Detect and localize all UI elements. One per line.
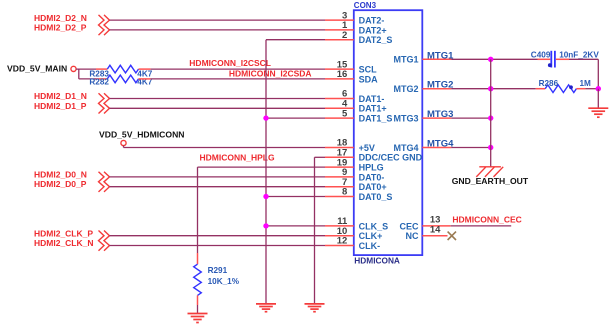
svg-text:1M: 1M bbox=[580, 79, 592, 88]
power port VDD_5V_HDMICONN bbox=[99, 129, 184, 145]
svg-text:5: 5 bbox=[342, 108, 348, 119]
label GND_EARTH_OUT bbox=[452, 176, 529, 186]
wire HDMI2_D1_N bbox=[110, 98, 326, 100]
pin 7 stub bbox=[325, 186, 354, 188]
svg-text:HDMI2_D1_P: HDMI2_D1_P bbox=[34, 101, 87, 111]
junction corner bbox=[596, 86, 601, 91]
pin number 16 bbox=[337, 69, 348, 80]
pin number 6 bbox=[342, 89, 347, 100]
pin name CLK_S bbox=[359, 221, 389, 231]
wire HDMI2_D2_N bbox=[110, 19, 326, 21]
junction DAT1_S bbox=[263, 115, 268, 120]
power port VDD_5V_MAIN bbox=[7, 64, 76, 74]
net label HDMICONN_HPLG bbox=[200, 152, 275, 162]
pin number 13 bbox=[430, 215, 441, 226]
pin 1 stub bbox=[325, 29, 354, 31]
port chevron HDMI2_CLK bbox=[99, 231, 110, 251]
wire shield bus bbox=[266, 40, 325, 304]
svg-text:VDD_5V_MAIN: VDD_5V_MAIN bbox=[7, 64, 67, 74]
resistor R291 value 10K_1% bbox=[208, 277, 240, 286]
pin 4 stub bbox=[325, 107, 354, 109]
port label HDMI2_CLK_P bbox=[34, 228, 93, 238]
pin number 4 bbox=[342, 99, 348, 110]
svg-text:R286: R286 bbox=[539, 79, 559, 88]
pin name DAT0_S bbox=[359, 192, 393, 202]
junction MTG4 bus bbox=[488, 145, 493, 150]
earth ground GND_EARTH_OUT bbox=[476, 167, 503, 177]
pin number 1 bbox=[342, 20, 348, 31]
svg-text:MTG2: MTG2 bbox=[427, 80, 453, 91]
pin name DAT0+ bbox=[359, 182, 387, 192]
port chevron HDMI2_D0 bbox=[99, 172, 110, 192]
pin number 2 bbox=[342, 30, 347, 41]
pin MTG4 stub bbox=[422, 147, 451, 149]
connector CON3 body bbox=[354, 10, 423, 255]
junction DAT0_S bbox=[263, 194, 268, 199]
svg-text:DAT1+: DAT1+ bbox=[359, 104, 387, 114]
no-connect X pin 14 bbox=[448, 232, 456, 240]
wire HDMI2_D0_P bbox=[110, 186, 326, 188]
svg-text:CEC: CEC bbox=[399, 221, 419, 231]
pin 16 stub bbox=[325, 78, 354, 80]
wire CLK_S branch bbox=[266, 225, 325, 227]
resistor R282 bbox=[107, 75, 138, 83]
pin name SDA bbox=[359, 74, 379, 84]
svg-text:HDMICONN_HPLG: HDMICONN_HPLG bbox=[200, 152, 275, 162]
junction CLK_S bbox=[263, 223, 268, 228]
pin number 10 bbox=[337, 226, 348, 237]
port chevron HDMI2_D1 bbox=[99, 93, 110, 113]
resistor R282 left lead bbox=[96, 78, 107, 80]
wire R291 to ground bbox=[197, 305, 199, 314]
port label HDMI2_D1_P bbox=[34, 101, 87, 111]
svg-text:DDC/CEC GND: DDC/CEC GND bbox=[359, 153, 423, 163]
svg-text:MTG3: MTG3 bbox=[427, 109, 453, 120]
wire MTG1 to corner bbox=[569, 59, 598, 88]
svg-text:DAT2-: DAT2- bbox=[359, 16, 385, 26]
port label HDMI2_D0_P bbox=[34, 179, 87, 189]
svg-text:10K_1%: 10K_1% bbox=[208, 277, 240, 286]
svg-text:2: 2 bbox=[342, 30, 347, 41]
net label MTG2 bbox=[427, 80, 453, 91]
pin number 7 bbox=[342, 177, 347, 188]
resistor R282 value 4K7 bbox=[137, 77, 152, 86]
resistor R291 bottom lead bbox=[197, 295, 199, 305]
pin 11 stub bbox=[325, 225, 354, 227]
junction MTG1 bus bbox=[488, 57, 493, 62]
pin name DAT1- bbox=[359, 94, 385, 104]
resistor R286 value 1M bbox=[580, 79, 592, 88]
svg-text:NC: NC bbox=[406, 231, 419, 241]
resistor R282 label bbox=[89, 77, 109, 86]
pin number 9 bbox=[342, 167, 347, 178]
wire HDMI2_D0_N bbox=[110, 176, 326, 178]
pin 9 stub bbox=[325, 176, 354, 178]
wire +5V bbox=[124, 146, 326, 148]
svg-text:HDMI2_D1_N: HDMI2_D1_N bbox=[34, 91, 87, 101]
wire MTG2 bbox=[451, 88, 536, 90]
svg-text:DAT1_S: DAT1_S bbox=[359, 114, 393, 124]
net label MTG3 bbox=[427, 109, 453, 120]
wire MTG4 bbox=[451, 147, 490, 149]
svg-text:MTG3: MTG3 bbox=[393, 114, 418, 124]
capacitor C409 label bbox=[531, 50, 551, 59]
resistor R286 pin dot bbox=[569, 85, 573, 89]
net label MTG1 bbox=[427, 50, 454, 61]
port label HDMI2_D2_P bbox=[34, 23, 87, 33]
resistor R291 top lead bbox=[197, 253, 199, 264]
pin name HPLG bbox=[359, 163, 384, 173]
svg-text:HDMICONN_I2CSDA: HDMICONN_I2CSDA bbox=[229, 68, 312, 78]
wire to ground bbox=[597, 89, 599, 109]
pin name MTG3 bbox=[393, 114, 418, 124]
pin name DAT2_S bbox=[359, 35, 393, 45]
pin 10 stub bbox=[325, 235, 354, 237]
port chevron HDMI2_D2 bbox=[99, 15, 110, 35]
pin 15 stub bbox=[325, 68, 354, 70]
pin MTG1 stub bbox=[422, 58, 451, 60]
pin number 15 bbox=[337, 59, 348, 70]
port label HDMI2_CLK_N bbox=[34, 238, 94, 248]
pin name SCL bbox=[359, 65, 378, 75]
svg-text:DAT0-: DAT0- bbox=[359, 172, 385, 182]
pin 12 stub bbox=[325, 245, 354, 247]
svg-text:C409: C409 bbox=[531, 50, 551, 59]
capacitor C409 right lead bbox=[556, 58, 569, 60]
port label HDMI2_D1_N bbox=[34, 91, 87, 101]
pin 17 stub bbox=[325, 156, 354, 158]
pin number 14 bbox=[430, 224, 441, 235]
capacitor C409 value 10nF_2KV bbox=[559, 50, 599, 59]
svg-text:R291: R291 bbox=[208, 266, 228, 275]
svg-text:DAT1-: DAT1- bbox=[359, 94, 385, 104]
wire HDMI2_D2_P bbox=[110, 29, 326, 31]
wire HDMICONN_I2CSCL bbox=[151, 68, 325, 70]
wire MTG bus bbox=[490, 59, 492, 167]
junction MTG3 bus bbox=[488, 115, 493, 120]
svg-text:+5V: +5V bbox=[359, 143, 375, 153]
resistor R283 label bbox=[89, 69, 109, 78]
pin name DDC/CEC GND bbox=[359, 153, 423, 163]
resistor R286 right lead bbox=[576, 88, 585, 90]
pin name MTG2 bbox=[393, 84, 418, 94]
wire HDMICONN_HPLG bbox=[198, 167, 326, 253]
net label HDMICONN_I2CSDA bbox=[229, 68, 312, 78]
pin 8 stub bbox=[325, 196, 354, 198]
svg-text:8: 8 bbox=[342, 187, 347, 198]
ground R291 bbox=[188, 314, 208, 323]
svg-text:10nF_2KV: 10nF_2KV bbox=[559, 50, 599, 59]
svg-text:DAT2_S: DAT2_S bbox=[359, 35, 393, 45]
pin name DAT1_S bbox=[359, 114, 393, 124]
svg-text:HDMICONN_I2CSCL: HDMICONN_I2CSCL bbox=[189, 58, 271, 68]
pin number 11 bbox=[337, 216, 348, 227]
svg-text:CLK-: CLK- bbox=[359, 241, 381, 251]
resistor R282 right lead bbox=[139, 78, 151, 80]
resistor R283 left lead bbox=[96, 68, 107, 70]
resistor R286 label bbox=[539, 79, 559, 88]
svg-text:HDMI2_CLK_N: HDMI2_CLK_N bbox=[34, 238, 94, 248]
capacitor C409 pin1 dot bbox=[548, 63, 552, 67]
svg-text:MTG2: MTG2 bbox=[393, 84, 418, 94]
pin number 17 bbox=[337, 148, 348, 159]
pin number 3 bbox=[342, 10, 347, 21]
wire HDMI2_CLK_P bbox=[110, 235, 326, 237]
capacitor C409 bbox=[551, 51, 555, 68]
resistor R283 value 4K7 bbox=[137, 69, 152, 78]
svg-text:HDMI2_D0_P: HDMI2_D0_P bbox=[34, 179, 87, 189]
port label HDMI2_D0_N bbox=[34, 169, 87, 179]
wire R286 to corner bbox=[585, 88, 598, 90]
pin name MTG4 bbox=[393, 143, 418, 153]
junction MTG2 bus bbox=[488, 86, 493, 91]
connector value HDMICONA bbox=[354, 255, 400, 265]
pin MTG3 stub bbox=[422, 117, 451, 119]
pin 19 stub bbox=[325, 166, 354, 168]
wire HDMI2_CLK_N bbox=[110, 245, 326, 247]
svg-text:MTG4: MTG4 bbox=[393, 143, 418, 153]
pin 14 stub bbox=[422, 235, 447, 237]
net label HDMICONN_CEC bbox=[452, 215, 521, 225]
pin name +5V bbox=[359, 143, 375, 153]
wire DAT1_S branch bbox=[266, 117, 325, 119]
pin name DAT0- bbox=[359, 172, 385, 182]
wire HDMI2_D1_P bbox=[110, 107, 326, 109]
resistor R286 left lead bbox=[536, 88, 545, 90]
pin 5 stub bbox=[325, 117, 354, 119]
net label HDMICONN_I2CSCL bbox=[189, 58, 271, 68]
svg-text:MTG1: MTG1 bbox=[427, 50, 454, 61]
pin 6 stub bbox=[325, 98, 354, 100]
pin number 18 bbox=[337, 138, 348, 149]
wire DDC/CEC GND bbox=[315, 157, 326, 304]
pin 2 stub bbox=[325, 39, 354, 41]
pin name DAT2+ bbox=[359, 25, 387, 35]
ground MTG bbox=[588, 108, 608, 117]
port label HDMI2_D2_N bbox=[34, 13, 87, 23]
net label MTG4 bbox=[427, 139, 454, 150]
svg-text:HDMICONA: HDMICONA bbox=[354, 255, 400, 265]
pin 13 stub bbox=[422, 225, 450, 227]
svg-text:CLK+: CLK+ bbox=[359, 231, 383, 241]
svg-text:VDD_5V_HDMICONN: VDD_5V_HDMICONN bbox=[99, 129, 184, 139]
resistor R283 right lead bbox=[139, 68, 151, 70]
svg-text:16: 16 bbox=[337, 69, 348, 80]
resistor R291 label bbox=[208, 266, 228, 275]
ground shield bus bbox=[256, 304, 276, 312]
ground DDC/CEC bbox=[305, 304, 325, 312]
svg-text:DAT0_S: DAT0_S bbox=[359, 192, 393, 202]
svg-text:SDA: SDA bbox=[359, 74, 379, 84]
svg-text:DAT2+: DAT2+ bbox=[359, 25, 387, 35]
svg-text:CON3: CON3 bbox=[354, 1, 377, 10]
resistor R291 bbox=[194, 264, 202, 295]
resistor R286 bbox=[545, 85, 576, 93]
svg-text:HDMI2_D2_N: HDMI2_D2_N bbox=[34, 13, 87, 23]
svg-text:MTG1: MTG1 bbox=[393, 55, 418, 65]
pin name CLK+ bbox=[359, 231, 383, 241]
svg-text:HDMI2_CLK_P: HDMI2_CLK_P bbox=[34, 228, 93, 238]
capacitor C409 left lead bbox=[538, 58, 551, 60]
pin name CLK- bbox=[359, 241, 381, 251]
wire MTG3 bbox=[451, 117, 490, 119]
svg-text:HDMICONN_CEC: HDMICONN_CEC bbox=[452, 215, 521, 225]
wire MTG1 bbox=[451, 58, 537, 60]
pin number 8 bbox=[342, 187, 347, 198]
svg-text:DAT0+: DAT0+ bbox=[359, 182, 387, 192]
pin 18 stub bbox=[325, 147, 354, 149]
pin MTG2 stub bbox=[422, 88, 451, 90]
svg-text:MTG4: MTG4 bbox=[427, 139, 454, 150]
pin name CEC bbox=[399, 221, 419, 231]
svg-text:14: 14 bbox=[430, 224, 441, 235]
wire VDD_5V_MAIN to resistors bbox=[76, 69, 96, 79]
svg-text:SCL: SCL bbox=[359, 65, 378, 75]
svg-text:12: 12 bbox=[337, 236, 348, 247]
pin 3 stub bbox=[325, 19, 354, 21]
pin name NC bbox=[406, 231, 419, 241]
pin number 5 bbox=[342, 108, 348, 119]
pin number 19 bbox=[337, 157, 348, 168]
wire HDMICONN_I2CSDA bbox=[151, 78, 325, 80]
pin number 12 bbox=[337, 236, 348, 247]
svg-text:HDMI2_D2_P: HDMI2_D2_P bbox=[34, 23, 87, 33]
pin name DAT2- bbox=[359, 16, 385, 26]
svg-text:CLK_S: CLK_S bbox=[359, 221, 389, 231]
pin name MTG1 bbox=[393, 55, 418, 65]
pin name DAT1+ bbox=[359, 104, 387, 114]
svg-text:R282: R282 bbox=[89, 77, 109, 86]
resistor R283 bbox=[107, 65, 138, 73]
svg-text:HPLG: HPLG bbox=[359, 163, 384, 173]
connector CON3 refdes bbox=[354, 1, 377, 10]
svg-text:HDMI2_D0_N: HDMI2_D0_N bbox=[34, 169, 87, 179]
svg-text:GND_EARTH_OUT: GND_EARTH_OUT bbox=[452, 176, 529, 186]
wire DAT0_S branch bbox=[266, 196, 325, 198]
wire HDMICONN_CEC bbox=[451, 225, 512, 227]
